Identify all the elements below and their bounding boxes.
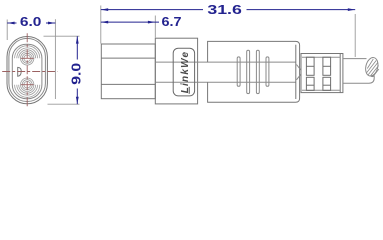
dimension 31.6 extension lines: [101, 6, 355, 58]
front vertical centerline: [26, 33, 28, 107]
wire core hatched: [364, 56, 380, 77]
dimension 6.0: [7, 22, 55, 25]
top socket rings: [15, 46, 40, 65]
wire insulation: [343, 59, 374, 84]
crimp window bottom-2: [323, 77, 331, 90]
dimension 6.7: [101, 21, 159, 24]
crimp window top-2: [323, 57, 331, 75]
svg-text:9.0: 9.0: [68, 63, 83, 85]
dimension 31.6 text: [207, 2, 242, 17]
svg-text:6.0: 6.0: [20, 14, 42, 29]
top socket crosshair: [21, 57, 34, 59]
front view outer shell: [7, 37, 47, 104]
rib 1: [237, 57, 240, 86]
svg-text:31.6: 31.6: [207, 2, 242, 17]
crimp sleeve: [301, 54, 343, 93]
D key: [18, 67, 22, 77]
rib 2: [247, 50, 250, 93]
side view inner lines: [155, 62, 295, 82]
dimension 9.0 extension lines: [44, 36, 80, 104]
bottom socket crosshair: [21, 84, 34, 86]
front view cavity oval: [12, 44, 42, 98]
dimension 9.0: [76, 36, 79, 104]
bottom socket rings: [15, 78, 40, 97]
rib 4: [266, 57, 269, 86]
logo text LinkWe: [180, 51, 191, 94]
barrel taper: [297, 65, 302, 80]
dimension 9.0 text: [68, 63, 83, 85]
dimension 31.6: [101, 8, 355, 11]
side view body: [208, 41, 300, 102]
rib 3: [256, 50, 259, 93]
side view flange: [155, 38, 197, 104]
crimp window bottom-1: [306, 77, 314, 90]
logo plate: [173, 48, 194, 96]
crimp window top-1: [306, 57, 314, 75]
front view inner shell: [9, 38, 46, 101]
front horizontal centerline: [2, 71, 57, 73]
svg-text:6.7: 6.7: [162, 14, 182, 29]
dimension 6.0 text: [20, 14, 42, 29]
dimension 6.7 extension line: [154, 16, 156, 38]
side view mating shell: [101, 44, 155, 99]
dimension 6.0 extension lines: [7, 19, 55, 99]
dimension 6.7 text: [162, 14, 182, 29]
